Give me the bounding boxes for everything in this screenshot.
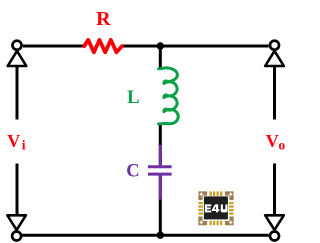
svg-text:o: o — [278, 138, 285, 153]
svg-text:C: C — [126, 161, 139, 182]
svg-text:R: R — [96, 8, 111, 30]
svg-text:L: L — [127, 87, 140, 108]
svg-text:V: V — [266, 131, 279, 151]
svg-text:V: V — [7, 131, 20, 151]
svg-text:i: i — [22, 138, 26, 153]
